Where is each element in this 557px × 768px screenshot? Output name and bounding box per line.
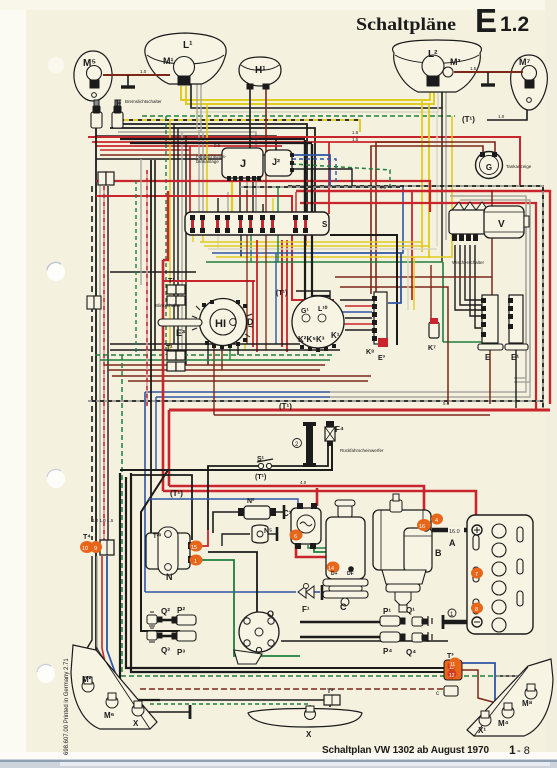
wire: blue rows (gray at right) (145, 391, 330, 393)
wire: black top row to J2 (120, 138, 305, 140)
svg-text:J²: J² (272, 157, 280, 167)
wire: M5 to L1 brown (103, 74, 170, 76)
wire: blue to regulator 61 (148, 499, 298, 506)
horn H1 (239, 57, 281, 86)
wire: teal dash column (122, 355, 160, 676)
turn signal M7 (511, 55, 548, 110)
svg-text:C¹: C¹ (283, 509, 292, 518)
svg-text:L¹⁰: L¹⁰ (318, 305, 328, 313)
wire: white wire L2 (196, 77, 438, 112)
wire: J2 black tail (292, 169, 352, 186)
svg-text:1: 1 (194, 559, 197, 565)
wire: battery ground strap (443, 620, 474, 625)
wire: red row 4 (100, 149, 190, 151)
hole punch 2 (47, 470, 65, 488)
wire: T4 tails down to fender (80, 556, 92, 660)
svg-text:O: O (267, 609, 274, 619)
svg-text:16.0: 16.0 (449, 529, 460, 535)
wire: gray cols to fuse box (198, 130, 200, 214)
wire: black headlight ground bus (191, 77, 442, 108)
wire: mid band brown rows (104, 364, 325, 366)
svg-text:M⁷: M⁷ (519, 57, 530, 67)
svg-text:S: S (322, 220, 328, 229)
wire: mid band green (100, 359, 330, 361)
wire: bottom rows to license light (145, 700, 330, 707)
svg-text:T¹: T¹ (166, 345, 173, 352)
wire: black verticals J2 to fuse (304, 140, 306, 212)
wire: green DF second (308, 545, 356, 560)
svg-text:D: D (247, 317, 254, 327)
wire: black row 2 (110, 128, 315, 212)
svg-text:N²: N² (247, 498, 255, 505)
wire: mid band row black 1 (110, 343, 300, 345)
wire: K7 drop (430, 265, 432, 324)
wire: regulator B+ red column (316, 488, 319, 506)
svg-text:M⁴: M⁴ (498, 719, 509, 728)
wire: left bundle columns from F area down (88, 102, 96, 684)
license plate light X (248, 706, 362, 727)
wire: E3 terminal drops (207, 344, 209, 365)
svg-text:0.5: 0.5 (380, 185, 387, 190)
svg-text:.: . (385, 0, 386, 1)
spark plug Q2 and lead P2 (147, 612, 196, 626)
svg-text:P²: P² (177, 606, 185, 615)
svg-text:Q³: Q³ (161, 646, 170, 655)
wire: yellow col (413, 257, 415, 310)
lead P4 and spark plug Q4 (380, 632, 432, 642)
wire: yellow column right mid (451, 116, 453, 258)
wire: dash row mid (88, 400, 543, 402)
wire: brown columns from G to switch (371, 146, 483, 294)
connector T1 pairs left of E3 (167, 285, 185, 371)
wire: big red loop row (169, 409, 550, 412)
wire: blue columns mid (144, 392, 146, 592)
wire: battery feed red 2 (163, 491, 476, 518)
wire: black coil to distributor (207, 466, 209, 530)
svg-text:M⁵: M⁵ (83, 58, 96, 69)
svg-text:Blinkschalter: Blinkschalter (155, 303, 181, 308)
svg-text:Bremslichtschalter: Bremslichtschalter (125, 99, 162, 104)
svg-text:Q¹: Q¹ (406, 606, 415, 615)
svg-text:N: N (166, 572, 173, 582)
wire: regulator red to generator (296, 540, 340, 564)
oil pressure switch F1 (298, 584, 322, 601)
svg-text:E¹: E¹ (511, 353, 519, 362)
fuel gauge sender G (476, 152, 503, 179)
wire: black feed to K8 (330, 235, 397, 345)
wire: J black drops (239, 180, 241, 212)
svg-text:D+: D+ (331, 571, 338, 577)
wire: J gray drop (246, 180, 248, 212)
svg-text:K²K⁵K³: K²K⁵K³ (298, 335, 325, 344)
wire: bottom bus brown dash (140, 688, 447, 690)
wire: mid band row black 2 (110, 349, 340, 351)
wire: red right row to corner (296, 191, 550, 404)
orange terminal dots (190, 514, 484, 669)
wire: X bulb ground left fender (145, 711, 190, 713)
svg-text:X: X (306, 730, 312, 739)
svg-text:4: 4 (435, 518, 438, 524)
svg-text:M⁶: M⁶ (104, 711, 115, 720)
svg-text:C: C (340, 602, 347, 612)
svg-text:5.5: 5.5 (443, 401, 450, 406)
wire: red column right mid (411, 190, 413, 300)
wire: black columns heavy chassis (120, 473, 160, 700)
wire: L2 columns to dash (421, 100, 423, 252)
wire: blue column to K (275, 253, 277, 344)
wire: red row lower (92, 141, 430, 143)
wire: red stub coil 15 (196, 530, 208, 546)
distributor O (234, 612, 279, 664)
svg-text:Q⁴: Q⁴ (406, 648, 416, 657)
svg-text:7: 7 (475, 572, 478, 578)
svg-text:(T¹): (T¹) (462, 115, 475, 124)
svg-text:DF: DF (347, 571, 354, 577)
wire: black M7 feed from T1 (487, 108, 527, 120)
wire: brown columns near K (246, 190, 248, 344)
wire: black from N2 (213, 512, 240, 533)
svg-text:N⁵: N⁵ (264, 528, 272, 535)
svg-text:G: G (486, 163, 492, 172)
starter B (373, 494, 432, 612)
wire: black S1 line (272, 446, 328, 466)
wire: red col right of fuse (328, 142, 330, 214)
svg-text:T³: T³ (447, 653, 454, 660)
wire: E/E1 tails below (489, 350, 491, 404)
svg-text:M⁸: M⁸ (522, 699, 533, 708)
wire: red column from top to battery feed (162, 260, 165, 491)
svg-text:K⁷: K⁷ (428, 345, 436, 352)
wire: V motor tails (455, 245, 482, 310)
svg-text:T²⁰: T²⁰ (153, 533, 162, 540)
svg-text:F¹: F¹ (302, 605, 310, 614)
wire: gray pair right edge (450, 196, 526, 378)
right rear fender (467, 659, 553, 736)
wire: license X ground (290, 712, 316, 720)
connector on left harness (87, 296, 101, 309)
svg-text:0.5: 0.5 (214, 143, 221, 148)
svg-text:E: E (485, 353, 491, 362)
wire: green column K area (277, 186, 279, 262)
headlight L1 (145, 33, 226, 84)
wire: rows from K8 strip left (340, 299, 372, 301)
svg-text:Wischerschalter: Wischerschalter (452, 260, 485, 265)
connector T3 orange (444, 660, 462, 680)
wire: bus to right fender black (497, 676, 540, 700)
wiper motor V (449, 202, 529, 241)
wire: J yellow drop to fuse (231, 180, 233, 212)
wire: gray column left (99, 186, 101, 540)
svg-text:Q²: Q² (161, 607, 170, 616)
wire: green row to E switch (443, 341, 482, 343)
wire: red row under J (96, 181, 430, 212)
speedometer K (292, 296, 344, 352)
svg-text:blinkanlage: blinkanlage (196, 159, 219, 164)
wire: yellow-black dashed row (120, 120, 360, 132)
svg-text:1: 1 (509, 743, 516, 757)
wire: blue column right (310, 186, 403, 253)
svg-text:A: A (449, 538, 456, 548)
ground bolt for battery strap (443, 609, 456, 629)
ignition starter switch K8 strip (366, 292, 388, 362)
wire: red-white dash col mid (146, 170, 148, 406)
svg-text:L¹: L¹ (183, 40, 193, 51)
svg-text:1.0: 1.0 (498, 114, 505, 119)
wire: black-white dash diagonal under J (240, 186, 400, 188)
svg-text:(T¹): (T¹) (276, 290, 287, 297)
wire: black-white dash right (288, 186, 543, 408)
wire: red row upper (88, 137, 520, 187)
svg-text:c: c (436, 691, 439, 697)
wire: bottom bus black 2 (260, 671, 448, 673)
ignition-light switch E3 (158, 299, 253, 350)
svg-text:L²: L² (428, 49, 438, 60)
wire: yellow headlight bus L1-L2 (181, 77, 430, 100)
sensor N2 (238, 505, 284, 519)
wire: green coil run (196, 560, 300, 656)
wire: teal dash col mid (135, 180, 137, 355)
connector T4 (80, 540, 114, 555)
svg-text:16: 16 (419, 524, 425, 530)
relay J (222, 148, 263, 181)
spark plug Q3 and lead P3 (147, 628, 196, 642)
wire: blue feed to K8 (388, 253, 401, 303)
wire: yellow headlight bus 2 (186, 77, 434, 104)
svg-text:(T¹): (T¹) (170, 489, 183, 498)
svg-text:12: 12 (449, 673, 455, 679)
wire: black row above E3 (110, 271, 196, 273)
wire: white col (407, 249, 409, 310)
wire: distributor to T3 black (281, 640, 448, 642)
svg-text:S¹: S¹ (257, 456, 265, 463)
cable label 16.0 (448, 527, 464, 534)
svg-text:15: 15 (191, 545, 197, 551)
svg-text:J: J (240, 158, 246, 170)
svg-text:Tankanzeige: Tankanzeige (506, 164, 532, 169)
svg-text:(T¹): (T¹) (255, 474, 266, 481)
wire: black row to J area (118, 124, 307, 212)
svg-text:P⁴: P⁴ (383, 647, 392, 656)
wire: J2 green dash tail (292, 164, 390, 186)
svg-text:M¹: M¹ (163, 56, 174, 66)
connector T2 left (98, 172, 114, 185)
wire: plug leads row 1 (150, 619, 196, 621)
wire: red-white dashed column left (103, 186, 105, 540)
wire: red right row 2 (300, 203, 536, 411)
tiny annotation texts (92, 99, 532, 523)
svg-text:Schaltplan VW 1302 ab August 1: Schaltplan VW 1302 ab August 1970 (322, 745, 489, 756)
washer bar (2) (293, 422, 317, 467)
wire: fuse bottom stubs (192, 233, 194, 242)
wire: gray col mid (140, 159, 142, 285)
wire: red column left mid (150, 160, 152, 533)
fuses F holders (91, 100, 123, 128)
ground right of left fender (189, 705, 192, 719)
wire: J2 blue tails (292, 155, 330, 186)
wire: plug leads right (300, 621, 380, 623)
svg-text:P³: P³ (177, 648, 185, 657)
wire: red col to fuse (189, 146, 191, 212)
wire: T3 blue to right (462, 663, 495, 705)
wire: columns between T2 and E3 (165, 116, 167, 355)
wire: black to distributor (208, 552, 257, 613)
svg-text:8: 8 (475, 607, 478, 613)
relay J2 (265, 150, 294, 176)
svg-text:H¹: H¹ (255, 65, 266, 76)
wire: red row from E3 (163, 280, 255, 282)
svg-text:F: F (116, 98, 122, 108)
generator C (323, 500, 368, 606)
svg-text:F⁴: F⁴ (335, 425, 344, 434)
wire: rows below fuse box (200, 241, 422, 243)
wire gauge labels (140, 0, 505, 485)
wire: green col from dash rows (442, 262, 444, 342)
wire: (T1) black link mid (296, 291, 330, 300)
wire: starter cable black (432, 528, 474, 533)
wire: black H1 drop (96, 88, 250, 159)
fuse box S (185, 212, 329, 235)
wire: brown row lower (214, 414, 490, 416)
ignition coil N (146, 527, 195, 575)
wire: red jog from row to col (163, 191, 168, 260)
switch S1 (257, 459, 273, 469)
svg-text:E³: E³ (176, 328, 185, 338)
svg-text:HI: HI (215, 318, 226, 330)
ground symbol at M3-M7 wire (481, 72, 495, 85)
svg-text:6: 6 (294, 534, 297, 540)
wire: black dashed column (91, 186, 93, 540)
light switch E (478, 295, 503, 362)
svg-text:1.5: 1.5 (352, 130, 359, 135)
wire: battery feed red 1 (169, 486, 424, 514)
svg-text:Schaltpläne: Schaltpläne (356, 14, 456, 34)
switch F4 (325, 421, 335, 446)
wire: red row 3 (96, 145, 282, 147)
wire: gray columns from L1 (196, 84, 198, 129)
wire: red columns E3 to K (252, 281, 254, 347)
bottom scan edge (0, 752, 557, 768)
svg-text:Rückfahrscheinwerfer: Rückfahrscheinwerfer (340, 448, 384, 453)
headlight L2 (393, 40, 482, 92)
ground symbol at M5-L1 wire (121, 75, 135, 87)
hole punch 3 (37, 665, 55, 683)
relay c backup (436, 686, 458, 697)
svg-text:P¹: P¹ (383, 607, 391, 616)
svg-text:B: B (435, 548, 442, 558)
wire: maroon to c relay (446, 689, 448, 692)
svg-text:V: V (498, 219, 505, 230)
svg-text:698.607.00 Printed in Germany: 698.607.00 Printed in Germany 2.71 (64, 658, 70, 755)
turn signal M5 (74, 51, 112, 101)
svg-text:T¹: T¹ (168, 278, 175, 285)
svg-text:K⁸: K⁸ (366, 349, 374, 356)
left rear fender (71, 645, 157, 729)
wire: brown H1 drop (100, 88, 266, 155)
wire: bottom bus black 1 (200, 667, 448, 669)
svg-text:1.0 1.0 1.5: 1.0 1.0 1.5 (92, 518, 114, 523)
wire: T3 maroon right (462, 670, 504, 705)
wire: brown E drop (491, 190, 493, 300)
svg-text:X: X (133, 719, 139, 728)
wire: yellow col left fuse (206, 104, 208, 214)
svg-text:T²: T² (327, 688, 334, 695)
svg-text:- 8: - 8 (517, 745, 530, 757)
regulator C (291, 503, 321, 549)
svg-text:X¹: X¹ (478, 726, 486, 735)
svg-text:1.5: 1.5 (470, 66, 477, 71)
svg-text:K¹: K¹ (331, 331, 340, 340)
svg-text:4.0: 4.0 (300, 480, 307, 485)
svg-text:1.2: 1.2 (500, 13, 529, 36)
svg-text:11: 11 (450, 662, 455, 668)
svg-text:E: E (475, 2, 497, 39)
svg-text:(T¹): (T¹) (279, 402, 292, 411)
connector T2 bottom (324, 688, 340, 705)
wire: brown row upper (335, 276, 492, 278)
wire: regulator green to generator (314, 545, 351, 564)
wire: red rows mid (96, 196, 334, 300)
wire: mid band teal dash (95, 354, 335, 356)
svg-text:10: 10 (82, 546, 88, 552)
valve N5 (252, 525, 277, 543)
wire: black row under S1 (120, 446, 332, 470)
lead P1 and spark plug Q1 (380, 616, 432, 626)
wire: blue row to F1 (145, 591, 296, 593)
svg-text:M²: M² (82, 675, 92, 684)
svg-text:T⁴: T⁴ (83, 534, 91, 541)
svg-text:9: 9 (94, 546, 97, 552)
wiper switch E1 (505, 295, 528, 362)
hole punch 1 (47, 263, 65, 281)
wire: black col companion (154, 160, 156, 350)
wire: bottom bus teal dash (160, 675, 497, 677)
svg-text:1.0: 1.0 (140, 69, 147, 74)
warning lamp K7 (428, 318, 439, 352)
faint hole punch top (48, 57, 64, 73)
wire: green-white dashed to T1 (142, 115, 455, 117)
wire: gray row (118, 132, 256, 212)
wire: brown row 2 with corner (340, 287, 448, 404)
svg-text:1.5: 1.5 (352, 137, 359, 142)
wire: black column left2 (107, 186, 109, 540)
battery A (467, 515, 533, 634)
wire: fuse top stubs (217, 198, 219, 214)
svg-text:M³: M³ (450, 57, 461, 67)
wire: L2 gray column down (445, 77, 447, 240)
wire: red corner drop (168, 410, 171, 486)
wire: right fender drops (485, 705, 495, 712)
wire: black row 3 (96, 136, 276, 168)
wire: M3 to M7 brown (454, 71, 523, 73)
svg-text:E³: E³ (378, 355, 386, 362)
